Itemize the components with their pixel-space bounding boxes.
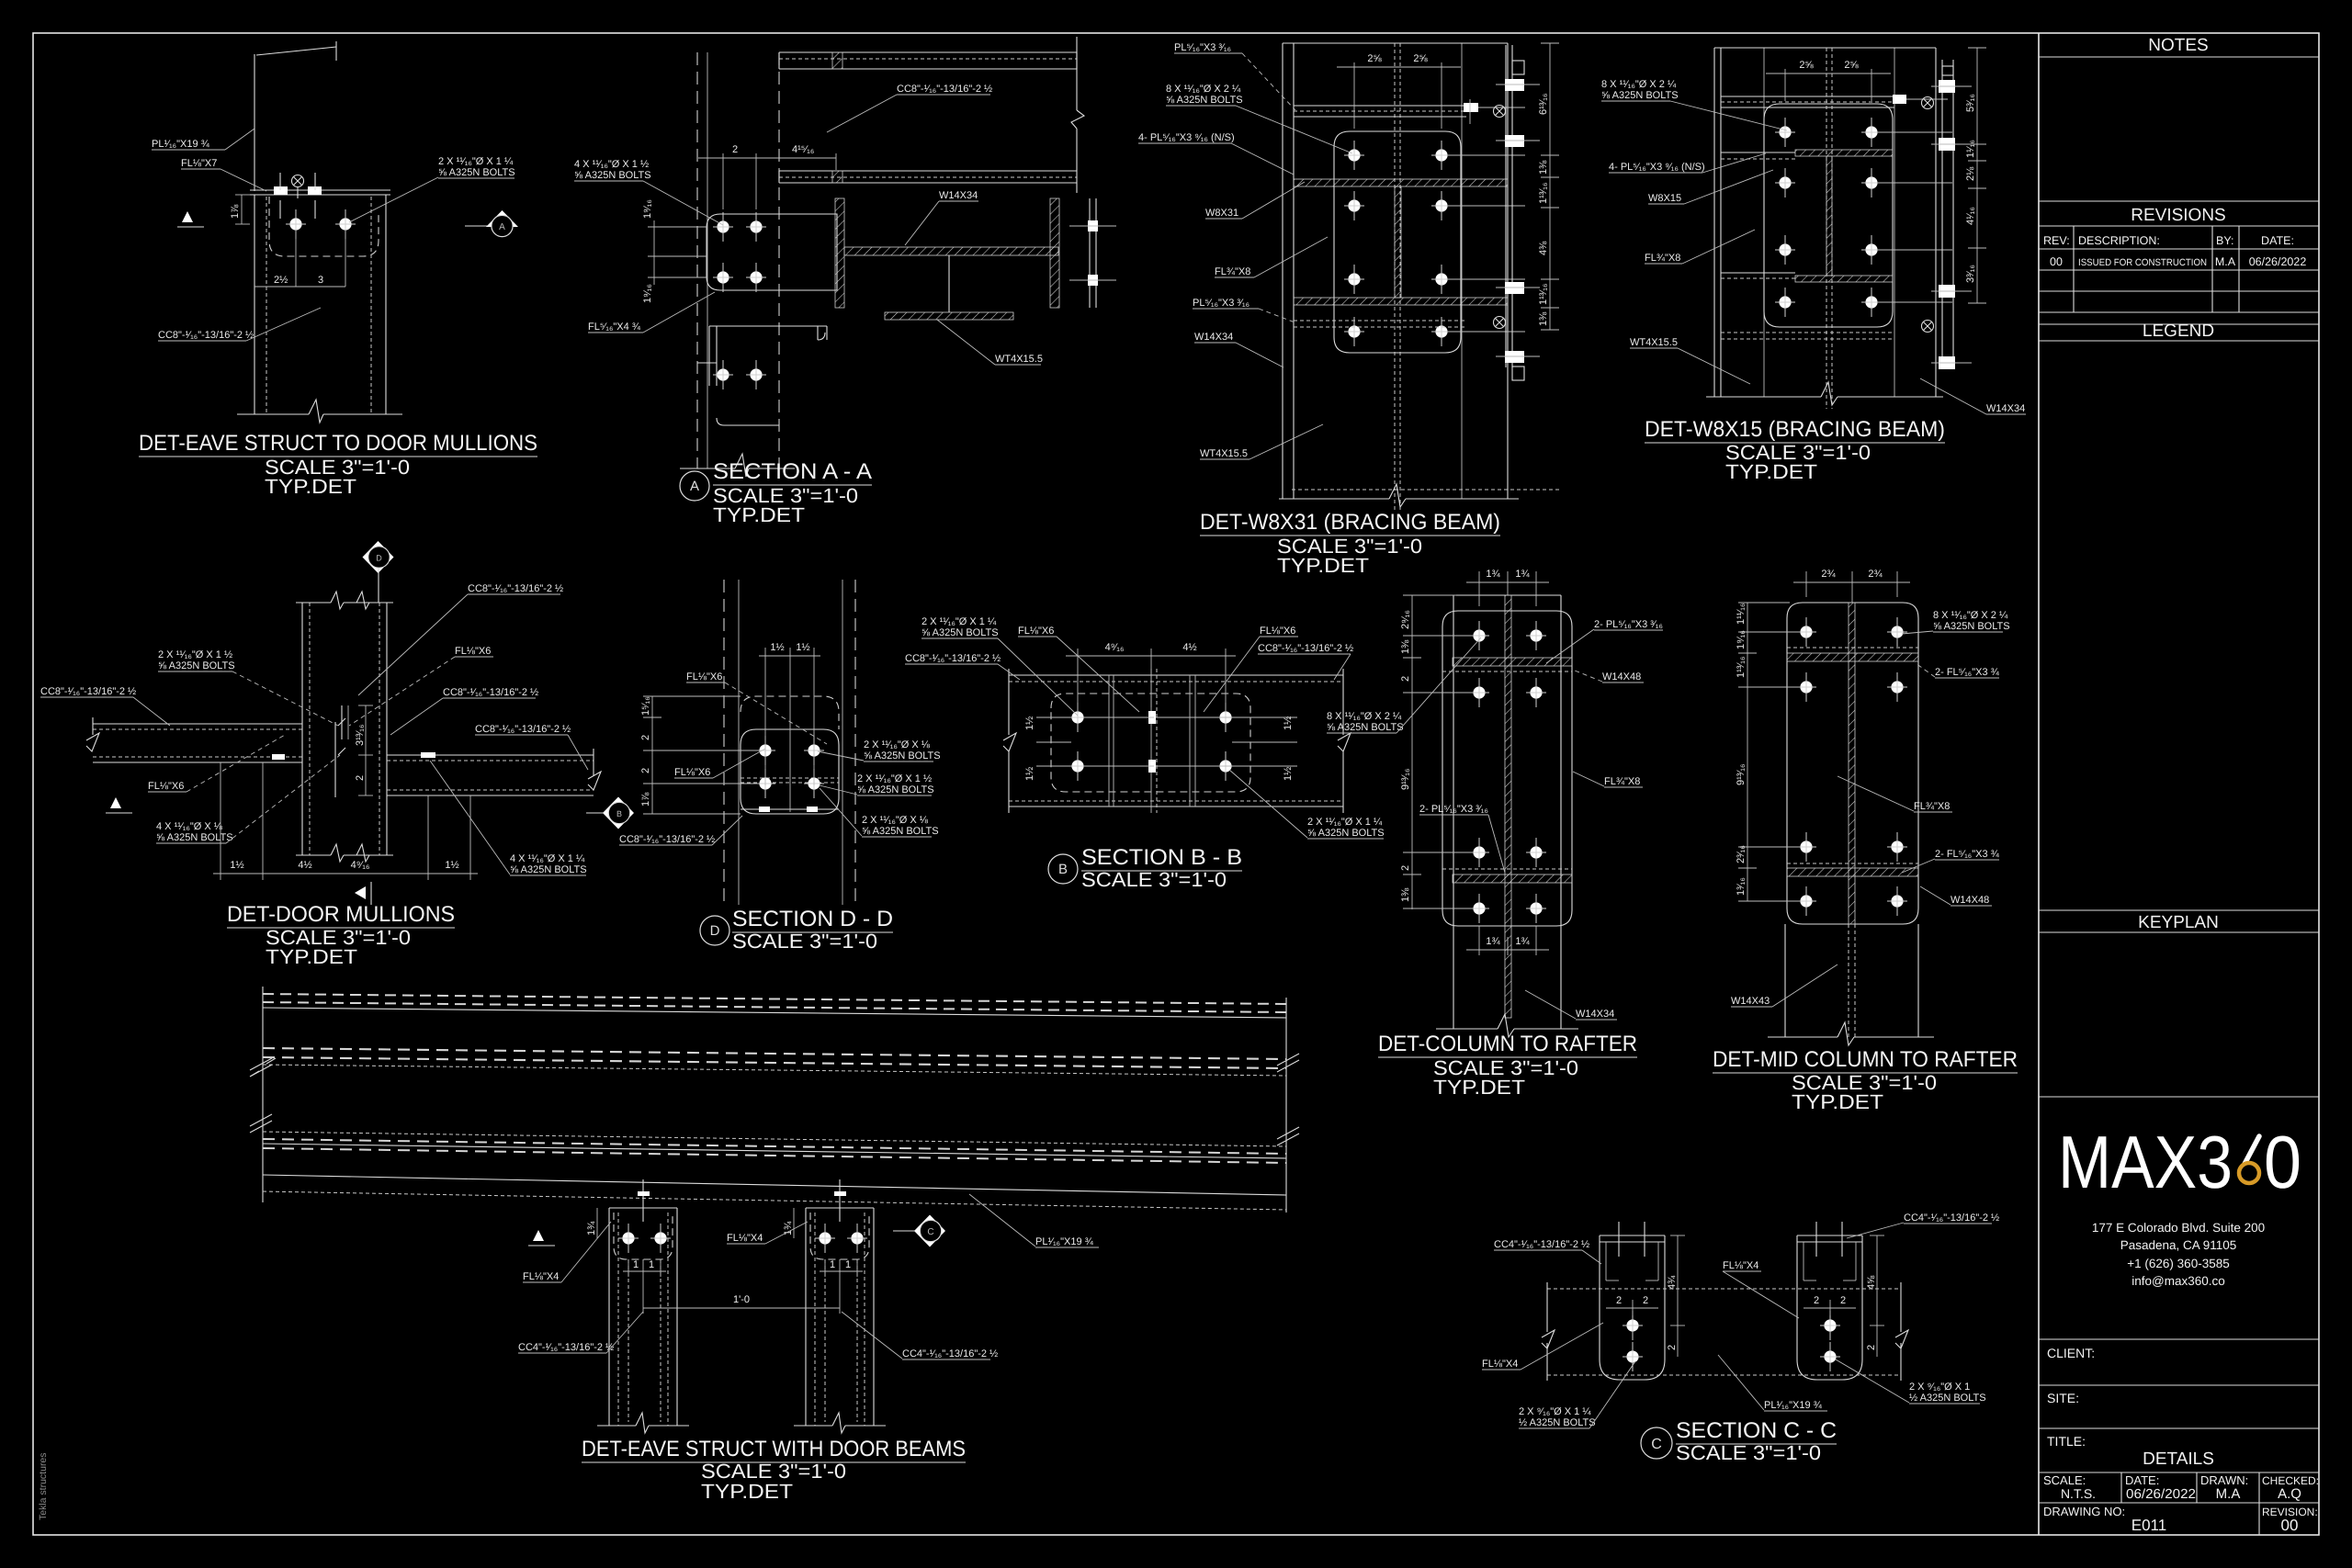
dashed lines mid (741, 777, 839, 779)
svg-text:FL⅛"X4: FL⅛"X4 (523, 1271, 559, 1282)
svg-text:info@max360.co: info@max360.co (2131, 1274, 2225, 1288)
svg-text:177 E Colorado Blvd. Suite 200: 177 E Colorado Blvd. Suite 200 (2092, 1221, 2265, 1235)
svg-text:1⅜: 1⅜ (1400, 639, 1411, 654)
svg-text:2: 2 (1667, 1345, 1678, 1350)
top cap plate (250, 189, 390, 191)
svg-text:1⅜: 1⅜ (1538, 160, 1549, 175)
SITE row (2039, 1384, 2319, 1386)
triangle marker (533, 1230, 544, 1241)
svg-text:8 X ¹¹⁄₁₆"Ø X 2 ¼: 8 X ¹¹⁄₁₆"Ø X 2 ¼ (1933, 610, 2008, 621)
svg-text:2⅝: 2⅝ (1844, 60, 1859, 71)
svg-text:WT4X15.5: WT4X15.5 (1630, 337, 1678, 348)
svg-text:DET-COLUMN TO RAFTER: DET-COLUMN TO RAFTER (1378, 1032, 1637, 1056)
svg-text:PL¹⁄₁₆"X19 ¾: PL¹⁄₁₆"X19 ¾ (1764, 1400, 1823, 1411)
svg-text:1⅞: 1⅞ (640, 792, 651, 807)
dim 1 7/8 (241, 195, 243, 224)
weld symbol circle-x (292, 175, 304, 187)
lower dashed connection (1294, 320, 1466, 321)
second beam flange (779, 170, 1077, 172)
W14X34 beam section (835, 198, 844, 308)
svg-text:2: 2 (732, 144, 738, 155)
door mullion column (254, 195, 255, 414)
svg-text:4 X ¹¹⁄₁₆"Ø X 1 ½: 4 X ¹¹⁄₁₆"Ø X 1 ½ (574, 159, 649, 170)
svg-text:PL⁵⁄₁₆"X3 ³⁄₁₆: PL⁵⁄₁₆"X3 ³⁄₁₆ (1193, 298, 1249, 309)
top dims (1077, 649, 1079, 713)
svg-text:TYP.DET: TYP.DET (1277, 554, 1369, 577)
title (1641, 1427, 1672, 1459)
svg-text:SCALE:: SCALE: (2043, 1473, 2086, 1487)
svg-text:2¾: 2¾ (1821, 569, 1836, 580)
svg-text:⅝ A325N BOLTS: ⅝ A325N BOLTS (1307, 828, 1385, 839)
svg-text:1¾: 1¾ (783, 1221, 794, 1235)
svg-text:1⁹⁄₁₆: 1⁹⁄₁₆ (642, 284, 653, 303)
svg-text:1: 1 (633, 1259, 639, 1270)
svg-text:1½: 1½ (1024, 716, 1035, 730)
svg-text:CC4"-¹⁄₁₆"-13/16"-2 ½: CC4"-¹⁄₁₆"-13/16"-2 ½ (1904, 1213, 1999, 1224)
svg-text:⅝ A325N BOLTS: ⅝ A325N BOLTS (438, 167, 515, 178)
svg-text:⅝ A325N BOLTS: ⅝ A325N BOLTS (862, 826, 939, 837)
column verticals (723, 580, 725, 905)
dim 4 3/4 right of channel (1677, 1235, 1679, 1325)
svg-text:M.A: M.A (2215, 255, 2236, 268)
top dims (1478, 571, 1480, 606)
bolt plate rounded (707, 214, 837, 290)
left end edge (262, 987, 264, 1202)
column base break (237, 413, 309, 415)
svg-text:FL¾"X8: FL¾"X8 (1215, 266, 1250, 277)
svg-text:PL¹⁄₁₆"X19 ¾: PL¹⁄₁₆"X19 ¾ (152, 139, 210, 150)
beam outline (1009, 674, 1343, 676)
svg-text:KEYPLAN: KEYPLAN (2138, 913, 2219, 932)
KEYPLAN header (2039, 909, 2319, 911)
svg-text:FL¾"X8: FL¾"X8 (1645, 253, 1680, 264)
small dims 1 1 (628, 1259, 629, 1277)
svg-text:Tekla structures: Tekla structures (38, 1452, 49, 1520)
dims top 2 5/8 (1784, 69, 1786, 101)
right edge plates (1941, 60, 1943, 367)
TITLE row (2039, 1427, 2319, 1429)
svg-text:PL⁵⁄₁₆"X3 ³⁄₁₆: PL⁵⁄₁₆"X3 ³⁄₁₆ (1174, 42, 1231, 53)
svg-text:1⅜: 1⅜ (1538, 311, 1549, 326)
svg-text:1⅜: 1⅜ (1400, 887, 1411, 902)
left dim chain (1747, 603, 1748, 901)
svg-text:CLIENT:: CLIENT: (2047, 1346, 2095, 1360)
svg-text:1½: 1½ (796, 642, 809, 653)
left dim chain (651, 696, 653, 814)
column outer flanges (1282, 43, 1283, 499)
channel studs (1618, 1222, 1620, 1257)
svg-text:DRAWING NO:: DRAWING NO: (2043, 1505, 2125, 1518)
bolts 4x (713, 212, 733, 242)
svg-text:FL⅛"X4: FL⅛"X4 (727, 1233, 763, 1244)
svg-text:W14X34: W14X34 (939, 190, 978, 201)
svg-text:⅝ A325N BOLTS: ⅝ A325N BOLTS (1166, 95, 1243, 106)
flange hatch strips (1453, 658, 1572, 666)
svg-text:2: 2 (1400, 676, 1411, 682)
rafter outer flanges (1453, 595, 1454, 1029)
svg-text:REV:: REV: (2043, 234, 2070, 247)
svg-text:2 X ¹¹⁄₁₆"Ø X 1 ¼: 2 X ¹¹⁄₁₆"Ø X 1 ¼ (1307, 817, 1383, 828)
center web hatched (1505, 595, 1511, 1018)
svg-text:CC4"-¹⁄₁₆"-13/16"-2 ½: CC4"-¹⁄₁₆"-13/16"-2 ½ (902, 1348, 998, 1359)
svg-text:TYP.DET: TYP.DET (1725, 460, 1817, 483)
plate rounded (614, 1213, 673, 1259)
svg-text:1: 1 (649, 1259, 654, 1270)
svg-text:ISSUED FOR CONSTRUCTION: ISSUED FOR CONSTRUCTION (2078, 257, 2207, 268)
bolts 8x (1775, 118, 1795, 147)
left channel (1600, 1235, 1665, 1380)
svg-text:⅝ A325N BOLTS: ⅝ A325N BOLTS (1601, 90, 1679, 101)
base break (1768, 1036, 1837, 1038)
svg-text:3¹³⁄₁₆: 3¹³⁄₁₆ (355, 725, 366, 746)
dim 2 5/8 pair top (1353, 62, 1355, 129)
svg-text:0: 0 (2264, 1122, 2301, 1204)
svg-text:1⁹⁄₁₆: 1⁹⁄₁₆ (1736, 630, 1747, 649)
break marks left (250, 1058, 276, 1077)
left triangle marker (110, 797, 121, 808)
top edge (1283, 42, 1508, 44)
splice plate rounded (1442, 611, 1572, 926)
svg-text:TYP.DET: TYP.DET (701, 1480, 793, 1503)
svg-text:TYP.DET: TYP.DET (265, 475, 356, 498)
studs above plate (279, 173, 281, 190)
svg-text:00: 00 (2050, 255, 2063, 268)
svg-text:⅝ A325N BOLTS: ⅝ A325N BOLTS (922, 627, 999, 638)
svg-text:TYP.DET: TYP.DET (1792, 1090, 1883, 1113)
svg-text:1⁵⁄₁₆: 1⁵⁄₁₆ (640, 696, 651, 716)
right break edge (1076, 37, 1078, 193)
svg-text:A.Q: A.Q (2278, 1486, 2301, 1502)
svg-text:1¹¹⁄₁₆: 1¹¹⁄₁₆ (1736, 604, 1747, 625)
svg-text:SCALE 3"=1'-0: SCALE 3"=1'-0 (1081, 868, 1227, 891)
right end edge (1285, 998, 1287, 1213)
bottom dim chain (220, 762, 221, 880)
svg-text:B: B (616, 809, 622, 818)
svg-text:DET-MID COLUMN TO RAFTER: DET-MID COLUMN TO RAFTER (1713, 1047, 2018, 1072)
svg-text:WT4X15.5: WT4X15.5 (1200, 448, 1248, 459)
bottom break (296, 854, 331, 856)
svg-text:4¾: 4¾ (1667, 1275, 1678, 1290)
gusset plate dashed outline (269, 197, 379, 256)
svg-text:2: 2 (1643, 1295, 1648, 1306)
dim 3 13/16 and 2 (365, 705, 367, 795)
svg-text:4½: 4½ (298, 860, 311, 871)
svg-text:1¾: 1¾ (1515, 936, 1530, 947)
svg-text:2: 2 (1400, 865, 1411, 871)
svg-text:8 X ¹¹⁄₁₆"Ø X 2 ¼: 8 X ¹¹⁄₁₆"Ø X 2 ¼ (1601, 79, 1677, 90)
beam top lines (263, 994, 1286, 1004)
lower dashed band (263, 1132, 1286, 1146)
svg-text:2³⁄₁₆: 2³⁄₁₆ (1736, 845, 1747, 863)
svg-text:2¾: 2¾ (1868, 569, 1883, 580)
bolt (335, 209, 356, 239)
svg-text:1½: 1½ (1283, 767, 1294, 781)
svg-text:DET-EAVE STRUCT WITH DOOR BEAM: DET-EAVE STRUCT WITH DOOR BEAMS (582, 1437, 966, 1461)
svg-text:2: 2 (1840, 1295, 1846, 1306)
mid dashed band (263, 1048, 1286, 1059)
stud above (642, 1179, 644, 1222)
dim 1'-0 (642, 1277, 644, 1314)
svg-text:2⁹⁄₁₆: 2⁹⁄₁₆ (1400, 610, 1411, 629)
svg-text:W14X48: W14X48 (1951, 895, 1989, 906)
svg-text:SECTION D - D: SECTION D - D (732, 907, 893, 931)
svg-text:D: D (710, 923, 720, 939)
WT4X15.5 tee (885, 312, 1013, 320)
svg-text:⅝ A325N BOLTS: ⅝ A325N BOLTS (156, 832, 233, 843)
svg-text:2⅝: 2⅝ (1799, 60, 1814, 71)
upper dashed plate (741, 696, 839, 729)
svg-text:2½: 2½ (274, 275, 288, 286)
svg-text:⅝ A325N BOLTS: ⅝ A325N BOLTS (1933, 621, 2010, 632)
svg-text:2 X ¹¹⁄₁₆"Ø X 1 ½: 2 X ¹¹⁄₁₆"Ø X 1 ½ (158, 649, 232, 660)
svg-text:⅝ A325N BOLTS: ⅝ A325N BOLTS (1327, 722, 1404, 733)
svg-text:DRAWN:: DRAWN: (2200, 1473, 2248, 1487)
section marker D top (363, 541, 394, 573)
dim 2 2 above bolts (1606, 1307, 1658, 1309)
lower dashed connection (1721, 332, 1894, 333)
CLIENT row (2039, 1338, 2319, 1340)
svg-text:2 X ¹¹⁄₁₆"Ø X ⅛: 2 X ¹¹⁄₁₆"Ø X ⅛ (862, 815, 929, 826)
svg-text:CC8"-¹⁄₁₆"-13/16"-2 ½: CC8"-¹⁄₁₆"-13/16"-2 ½ (619, 834, 715, 845)
svg-text:½ A325N BOLTS: ½ A325N BOLTS (1909, 1393, 1986, 1404)
svg-text:FL⁵⁄₁₆"X4 ¾: FL⁵⁄₁₆"X4 ¾ (588, 321, 641, 333)
svg-text:DET-W8X15 (BRACING BEAM): DET-W8X15 (BRACING BEAM) (1645, 417, 1945, 442)
svg-text:⅝ A325N BOLTS: ⅝ A325N BOLTS (510, 864, 587, 875)
svg-text:4⁹⁄₁₆: 4⁹⁄₁₆ (351, 860, 370, 871)
svg-text:W14X34: W14X34 (1194, 332, 1233, 343)
inner verticals (1108, 675, 1110, 807)
bolts lower (713, 360, 733, 389)
svg-text:8 X ¹¹⁄₁₆"Ø X 2 ¼: 8 X ¹¹⁄₁₆"Ø X 2 ¼ (1327, 711, 1402, 722)
svg-text:SECTION B - B: SECTION B - B (1081, 845, 1242, 870)
svg-text:2 X ¹¹⁄₁₆"Ø X ⅛: 2 X ¹¹⁄₁₆"Ø X ⅛ (864, 739, 931, 750)
svg-text:2⅝: 2⅝ (1413, 53, 1428, 64)
svg-text:4½: 4½ (1182, 642, 1196, 653)
svg-text:2: 2 (640, 768, 651, 773)
svg-text:6¹³⁄₁₆: 6¹³⁄₁₆ (1538, 94, 1549, 115)
break marks right (1277, 1054, 1299, 1072)
svg-text:FL¾"X8: FL¾"X8 (1914, 801, 1950, 812)
svg-text:1¹³⁄₁₆: 1¹³⁄₁₆ (1538, 284, 1549, 305)
svg-text:FL⅛"X6: FL⅛"X6 (674, 767, 710, 778)
svg-text:9¹³⁄₁₆: 9¹³⁄₁₆ (1400, 769, 1411, 790)
svg-text:TYP.DET: TYP.DET (266, 945, 357, 968)
bolts 8x (1344, 141, 1364, 170)
svg-text:CC4"-¹⁄₁₆"-13/16"-2 ½: CC4"-¹⁄₁₆"-13/16"-2 ½ (1494, 1239, 1589, 1250)
base break left col (597, 1425, 636, 1427)
svg-text:FL⅛"X6: FL⅛"X6 (455, 646, 491, 657)
right end plate (1089, 198, 1091, 308)
svg-text:DATE:: DATE: (2125, 1473, 2159, 1487)
column outer flanges (1713, 48, 1715, 397)
svg-text:4- PL⁵⁄₁₆"X3 ⁹⁄₁₆ (N/S): 4- PL⁵⁄₁₆"X3 ⁹⁄₁₆ (N/S) (1138, 132, 1235, 143)
svg-text:WT4X15.5: WT4X15.5 (995, 354, 1043, 365)
title (700, 916, 729, 945)
svg-text:N.T.S.: N.T.S. (2061, 1486, 2096, 1501)
svg-text:A: A (690, 479, 699, 494)
MAX360 logo (2058, 1122, 2301, 1204)
svg-text:1¾: 1¾ (1486, 569, 1500, 580)
svg-text:DET-EAVE STRUCT TO DOOR MULLIO: DET-EAVE STRUCT TO DOOR MULLIONS (139, 431, 537, 456)
web hatch vertical (1395, 186, 1401, 298)
svg-text:FL⅛"X7: FL⅛"X7 (181, 158, 217, 169)
svg-text:FL⅛"X6: FL⅛"X6 (1018, 626, 1054, 637)
center dashed (1826, 48, 1827, 409)
B marker right (586, 812, 604, 814)
svg-text:1¾: 1¾ (586, 1221, 597, 1235)
svg-text:⅝ A325N BOLTS: ⅝ A325N BOLTS (158, 660, 235, 671)
svg-text:1⁹⁄₁₆: 1⁹⁄₁₆ (642, 199, 653, 219)
LEGEND header (2039, 323, 2319, 325)
column dashed outline (696, 52, 698, 468)
svg-text:½ A325N BOLTS: ½ A325N BOLTS (1519, 1417, 1596, 1428)
svg-text:CC8"-¹⁄₁₆"-13/16"-2 ½: CC8"-¹⁄₁₆"-13/16"-2 ½ (468, 583, 563, 594)
bolt (286, 209, 306, 239)
svg-text:REVISIONS: REVISIONS (2131, 206, 2225, 225)
svg-text:2 X ¹¹⁄₁₆"Ø X 1 ¼: 2 X ¹¹⁄₁₆"Ø X 1 ¼ (922, 616, 997, 627)
base break (1436, 1028, 1498, 1030)
bolts 8x (1796, 617, 1816, 647)
svg-text:FL¾"X8: FL¾"X8 (1604, 776, 1640, 787)
svg-text:PL¹⁄₁₆"X19 ¾: PL¹⁄₁₆"X19 ¾ (1035, 1236, 1094, 1247)
svg-text:2⅛: 2⅛ (1965, 166, 1976, 181)
svg-text:2 X ¹¹⁄₁₆"Ø X 1 ¼: 2 X ¹¹⁄₁₆"Ø X 1 ¼ (438, 156, 514, 167)
svg-text:1½: 1½ (445, 860, 458, 871)
right dim chain (1549, 43, 1551, 330)
svg-text:FL⅛"X6: FL⅛"X6 (1260, 626, 1295, 637)
base line + break (1279, 498, 1389, 500)
dim 4 5/8 (1876, 1235, 1878, 1325)
right beam (387, 754, 594, 756)
svg-text:DETAILS: DETAILS (2143, 1450, 2214, 1469)
top dims (1805, 571, 1807, 597)
svg-text:DET-W8X31 (BRACING BEAM): DET-W8X31 (BRACING BEAM) (1200, 510, 1500, 535)
svg-text:06/26/2022: 06/26/2022 (2249, 255, 2307, 268)
top connection dashed plate (1294, 105, 1466, 107)
bolts (755, 736, 775, 765)
svg-text:SECTION A - A: SECTION A - A (713, 459, 872, 484)
svg-text:2: 2 (1866, 1345, 1877, 1350)
svg-text:2 X ⁹⁄₁₆"Ø X 1 ¼: 2 X ⁹⁄₁₆"Ø X 1 ¼ (1519, 1406, 1591, 1417)
svg-text:DATE:: DATE: (2261, 234, 2294, 247)
svg-text:CC4"-¹⁄₁₆"-13/16"-2 ½: CC4"-¹⁄₁₆"-13/16"-2 ½ (518, 1342, 614, 1353)
flange hatch strips (1795, 150, 1893, 156)
svg-text:1¹³⁄₁₆: 1¹³⁄₁₆ (1736, 657, 1747, 678)
svg-text:4⁹⁄₁₆: 4⁹⁄₁₆ (1105, 642, 1125, 653)
base break (680, 468, 735, 469)
top eave beam (779, 51, 1077, 53)
left door column (608, 1208, 610, 1426)
REVISIONS box (2039, 200, 2319, 202)
svg-text:CC8"-¹⁄₁₆"-13/16"-2 ½: CC8"-¹⁄₁₆"-13/16"-2 ½ (905, 653, 1001, 664)
svg-text:2- PL⁵⁄₁₆"X3 ³⁄₁₆: 2- PL⁵⁄₁₆"X3 ³⁄₁₆ (1419, 804, 1488, 815)
svg-text:CC8"-¹⁄₁₆"-13/16"-2 ½: CC8"-¹⁄₁₆"-13/16"-2 ½ (158, 330, 254, 341)
svg-text:1¹⁄₁₆: 1¹⁄₁₆ (1965, 140, 1976, 158)
bottom dims (1478, 926, 1480, 955)
svg-text:W14X34: W14X34 (1576, 1009, 1614, 1020)
splice plate rounded rect (1334, 131, 1461, 353)
bolts left channel (1623, 1311, 1643, 1340)
svg-text:2: 2 (1616, 1295, 1622, 1306)
side dims 1 1/2 (1036, 716, 1071, 718)
svg-text:CC8"-¹⁄₁₆"-13/16"-2 ½: CC8"-¹⁄₁₆"-13/16"-2 ½ (1258, 643, 1353, 654)
svg-text:DESCRIPTION:: DESCRIPTION: (2078, 234, 2160, 247)
horizontal plate dashed (1547, 1288, 1901, 1290)
svg-text:TYP.DET: TYP.DET (1433, 1076, 1525, 1099)
title (1048, 854, 1078, 884)
svg-text:4 X ¹¹⁄₁₆"Ø X 1 ¼: 4 X ¹¹⁄₁₆"Ø X 1 ¼ (510, 853, 585, 864)
svg-text:CC8"-¹⁄₁₆"-13/16"-2 ½: CC8"-¹⁄₁₆"-13/16"-2 ½ (897, 84, 992, 95)
svg-text:1½: 1½ (1024, 767, 1035, 781)
svg-text:4 X ¹¹⁄₁₆"Ø X ⅛: 4 X ¹¹⁄₁₆"Ø X ⅛ (156, 821, 223, 832)
svg-text:CC8"-¹⁄₁₆"-13/16"-2 ½: CC8"-¹⁄₁₆"-13/16"-2 ½ (40, 686, 136, 697)
svg-text:8 X ¹¹⁄₁₆"Ø X 2 ¼: 8 X ¹¹⁄₁₆"Ø X 2 ¼ (1166, 84, 1241, 95)
svg-text:1: 1 (830, 1259, 835, 1270)
info table (2039, 1472, 2319, 1473)
svg-text:5³⁄₁₆: 5³⁄₁₆ (1965, 94, 1976, 112)
svg-text:4⅝: 4⅝ (1866, 1275, 1877, 1290)
svg-text:1½: 1½ (230, 860, 243, 871)
svg-text:W14X48: W14X48 (1602, 671, 1641, 682)
svg-text:00: 00 (2281, 1517, 2299, 1534)
dim 2 top (722, 153, 724, 209)
svg-text:1: 1 (845, 1259, 851, 1270)
svg-text:B: B (1058, 862, 1068, 877)
bolts (1068, 703, 1088, 732)
svg-text:BY:: BY: (2216, 234, 2233, 247)
svg-text:E011: E011 (2131, 1517, 2166, 1534)
top connection dashed (1721, 96, 1894, 97)
svg-text:CC8"-¹⁄₁₆"-13/16"-2 ½: CC8"-¹⁄₁₆"-13/16"-2 ½ (475, 724, 571, 735)
svg-text:3³⁄₁₆: 3³⁄₁₆ (1965, 265, 1976, 283)
logo box top (2039, 1096, 2319, 1098)
bottom solid line (263, 1175, 1286, 1195)
center connection plate (334, 722, 336, 797)
svg-text:M.A: M.A (2216, 1486, 2241, 1502)
svg-text:06/26/2022: 06/26/2022 (2126, 1487, 2196, 1502)
svg-text:FL⅛"X6: FL⅛"X6 (686, 671, 722, 682)
svg-text:LEGEND: LEGEND (2143, 321, 2214, 341)
svg-text:C: C (1651, 1437, 1662, 1452)
splice plate rounded (1787, 603, 1918, 924)
left dim chain (1411, 595, 1413, 909)
lower solid plate (741, 729, 839, 814)
north triangle marker (182, 211, 193, 222)
svg-text:⅝ A325N BOLTS: ⅝ A325N BOLTS (864, 750, 941, 761)
section marker C (893, 1230, 915, 1232)
svg-text:2- FL⁵⁄₁₆"X3 ¾: 2- FL⁵⁄₁₆"X3 ¾ (1935, 849, 2000, 860)
dim 1 3/4 left (596, 1208, 598, 1238)
svg-text:1½: 1½ (770, 642, 784, 653)
top dims (764, 648, 766, 785)
left beam (93, 723, 302, 725)
svg-text:3: 3 (318, 275, 323, 286)
center dashed web lines (1394, 43, 1396, 510)
flange hatch strips (1787, 653, 1918, 661)
svg-text:W8X15: W8X15 (1648, 193, 1681, 204)
svg-text:2⅝: 2⅝ (1367, 53, 1382, 64)
svg-text:C: C (927, 1227, 933, 1237)
title (680, 471, 709, 501)
svg-text:Pasadena, CA 91105: Pasadena, CA 91105 (2120, 1238, 2237, 1252)
dims left 1 9/16 (648, 226, 707, 228)
vertical mullion column (301, 603, 303, 855)
bottom triangle marker (355, 886, 366, 899)
svg-text:FL⅛"X4: FL⅛"X4 (1723, 1260, 1758, 1271)
svg-text:TITLE:: TITLE: (2047, 1434, 2086, 1449)
bolts (618, 1224, 639, 1253)
svg-text:W14X43: W14X43 (1731, 996, 1770, 1007)
